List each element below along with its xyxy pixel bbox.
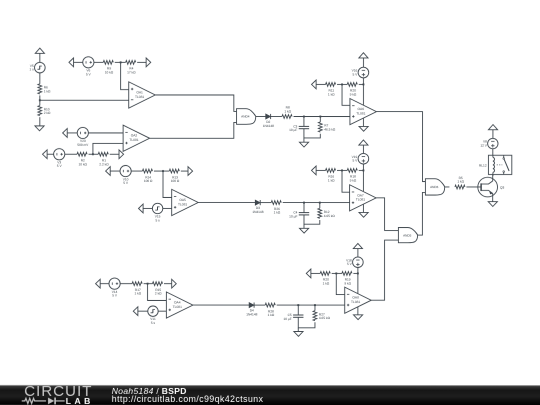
- terminal (up arrow): [359, 53, 368, 58]
- ground terminal (down arrow): [35, 126, 44, 131]
- junction: [303, 116, 305, 118]
- wire to OA5 inverting input: [163, 171, 172, 197]
- op-amp OA6: [350, 99, 377, 125]
- wire: [154, 170, 169, 172]
- ground at OA7 V-: [359, 212, 368, 217]
- svg-text:10 µF: 10 µF: [283, 317, 291, 321]
- svg-text:TL081: TL081: [178, 202, 187, 206]
- resistor R16: [326, 169, 336, 183]
- svg-text:46.5 kΩ: 46.5 kΩ: [324, 128, 336, 132]
- wire OA6 V- pin: [362, 118, 364, 126]
- diode D4: [246, 302, 257, 316]
- junction: [335, 272, 337, 274]
- terminal (left arrow): [96, 279, 101, 288]
- capacitor C3 top lead: [303, 117, 305, 127]
- svg-text:100 Ω: 100 Ω: [171, 179, 180, 183]
- voltage source V10: [120, 165, 131, 185]
- svg-text:9 kΩ: 9 kΩ: [350, 178, 357, 182]
- op-amp OA2: [123, 125, 150, 151]
- resistor R7: [318, 122, 335, 132]
- voltage source V23: [77, 127, 89, 147]
- wire to Q3 base: [466, 186, 477, 188]
- junction: [297, 304, 299, 306]
- ground at OA6 V-: [359, 126, 368, 131]
- wire: [89, 153, 99, 155]
- svg-text:1N4148: 1N4148: [252, 210, 263, 214]
- capacitor C3: [289, 124, 309, 132]
- wire: [110, 153, 119, 155]
- wire: [359, 83, 364, 85]
- svg-text:5 V: 5 V: [57, 164, 63, 168]
- voltage source V19: [352, 153, 369, 164]
- svg-text:1N4148: 1N4148: [263, 124, 274, 128]
- ground: [299, 228, 308, 233]
- svg-text:4.65 kΩ: 4.65 kΩ: [319, 316, 331, 320]
- svg-text:2 kΩ: 2 kΩ: [155, 292, 162, 296]
- terminal (left arrow): [69, 58, 74, 67]
- capacitor C4: [289, 211, 309, 219]
- wire V11 to OA4 non-inverting input: [158, 310, 166, 312]
- junction: [303, 202, 305, 204]
- svg-text:RL12: RL12: [479, 163, 487, 167]
- wire feedback to OA8 inverting input: [336, 273, 344, 294]
- junction: [341, 83, 343, 85]
- wire: [144, 283, 153, 285]
- junction: [357, 272, 359, 274]
- wire: [39, 73, 41, 84]
- resistor R27: [313, 311, 330, 321]
- svg-text:5 V: 5 V: [353, 73, 359, 77]
- resistor R18: [347, 169, 357, 183]
- op-amp OA5: [172, 189, 199, 215]
- wire OA8 V- pin: [357, 307, 359, 315]
- wire: [110, 170, 120, 172]
- svg-text:TL081: TL081: [135, 95, 144, 99]
- wire: [74, 61, 83, 63]
- AND gate AND4: [237, 109, 256, 125]
- voltage source V3: [54, 149, 65, 169]
- svg-text:1 kΩ: 1 kΩ: [44, 89, 51, 93]
- wire V19 to OA7 V+ pin: [362, 164, 364, 191]
- svg-text:TL081: TL081: [173, 305, 182, 309]
- wire: [65, 153, 77, 155]
- wire OA4 output: [193, 304, 249, 306]
- resistor R10: [38, 106, 51, 116]
- resistor R8: [282, 106, 292, 119]
- svg-text:10 µF: 10 µF: [289, 214, 297, 218]
- transistor Q3: [478, 174, 505, 201]
- resistor R26: [271, 201, 281, 215]
- junction: [162, 170, 164, 172]
- ground: [294, 332, 303, 337]
- svg-text:17 kΩ: 17 kΩ: [127, 70, 136, 74]
- terminal (left arrow): [312, 80, 317, 89]
- capacitor C4 top lead: [303, 203, 305, 213]
- wire V23 to OA2 inverting input: [88, 132, 123, 134]
- wire: [39, 117, 41, 126]
- wire OA7 output to AND5: [376, 198, 398, 231]
- voltage source V6: [83, 57, 94, 77]
- wire: [131, 170, 142, 172]
- svg-text:10 kΩ: 10 kΩ: [105, 70, 114, 74]
- wire AND6 output: [445, 186, 450, 188]
- wire AND4 output: [256, 115, 266, 117]
- resistor R15: [152, 282, 162, 296]
- square-wave source V5: [29, 62, 45, 73]
- diode D2: [263, 114, 274, 128]
- wire to OA8 non-inverting input: [277, 304, 345, 306]
- svg-text:2 kΩ: 2 kΩ: [44, 111, 51, 115]
- terminal (left arrow): [43, 150, 48, 159]
- diode D3: [252, 200, 263, 214]
- junction: [341, 169, 343, 171]
- wire: [181, 170, 188, 172]
- resistor R12: [318, 208, 335, 218]
- wire: [260, 202, 271, 204]
- wire V18 to OA8 V+ pin: [357, 268, 359, 294]
- wire: [337, 169, 347, 171]
- junction: [39, 99, 41, 101]
- svg-text:12 V: 12 V: [480, 144, 487, 148]
- resistor R14: [142, 169, 153, 183]
- terminal (up arrow): [488, 125, 497, 130]
- svg-text:2.2 kΩ: 2.2 kΩ: [99, 162, 109, 166]
- resistor R5: [455, 176, 465, 189]
- wire: [337, 83, 347, 85]
- wire to OA1 inverting input: [40, 99, 129, 101]
- ground at Q3 emitter: [488, 202, 497, 207]
- svg-text:5 s: 5 s: [151, 321, 156, 325]
- svg-text:1N4148: 1N4148: [246, 312, 257, 316]
- svg-text:AND5: AND5: [403, 233, 412, 237]
- wire OA7 V- pin: [362, 204, 364, 212]
- svg-text:1 kΩ: 1 kΩ: [457, 180, 464, 184]
- wire: [115, 61, 126, 63]
- capacitor C5 top lead: [297, 305, 299, 315]
- wire: [362, 145, 364, 153]
- svg-text:1 kΩ: 1 kΩ: [328, 92, 335, 96]
- terminal (right arrow): [172, 279, 177, 288]
- wire OA6 output to AND6: [376, 112, 425, 182]
- resistor R1: [98, 152, 109, 166]
- terminal (up arrow): [359, 140, 368, 145]
- wire ground drop: [297, 328, 299, 332]
- ground: [299, 142, 308, 147]
- wire R7 top lead: [319, 117, 321, 122]
- wire feedback to OA7 inverting input: [342, 170, 350, 192]
- svg-text:1 s: 1 s: [29, 68, 34, 72]
- terminal (left arrow): [306, 269, 311, 278]
- terminal (left arrow): [63, 129, 68, 138]
- svg-text:Q3: Q3: [500, 185, 504, 189]
- junction: [319, 202, 321, 204]
- resistor R19: [342, 272, 352, 286]
- junction: [319, 116, 321, 118]
- op-amp OA4: [166, 292, 193, 318]
- svg-text:100 Ω: 100 Ω: [144, 179, 153, 183]
- svg-text:1 kΩ: 1 kΩ: [323, 281, 330, 285]
- wire C4/R12 bottom: [304, 215, 320, 224]
- terminal (left arrow): [133, 307, 138, 316]
- svg-text:10 µF: 10 µF: [289, 128, 297, 132]
- voltage source V8: [480, 138, 498, 148]
- svg-text:1 kΩ: 1 kΩ: [328, 178, 335, 182]
- wire: [100, 283, 109, 285]
- wire AND5 output to AND6: [418, 192, 426, 235]
- wire: [143, 207, 152, 209]
- op-amp OA7: [350, 185, 377, 211]
- square-wave source V15: [152, 203, 162, 222]
- wire: [316, 83, 326, 85]
- wire feedback to OA6 inverting input: [342, 84, 350, 105]
- svg-text:OA8: OA8: [352, 296, 359, 300]
- svg-text:TL081: TL081: [129, 138, 138, 142]
- svg-text:5 s: 5 s: [155, 218, 160, 222]
- voltage source V16: [352, 67, 369, 78]
- wire OA5 output: [198, 202, 255, 204]
- wire C5/R27 bottom: [298, 317, 315, 328]
- terminal (right arrow): [146, 58, 151, 67]
- resistor R20: [347, 83, 357, 97]
- svg-text:5 V: 5 V: [347, 262, 353, 266]
- terminal (right arrow): [188, 167, 193, 176]
- wire: [94, 61, 104, 63]
- svg-text:1 kΩ: 1 kΩ: [274, 211, 281, 215]
- svg-text:OA1: OA1: [136, 90, 143, 94]
- svg-text:500 mV: 500 mV: [77, 143, 89, 147]
- svg-text:9 kΩ: 9 kΩ: [350, 92, 357, 96]
- wire: [137, 61, 146, 63]
- terminal (left arrow): [138, 204, 143, 213]
- AND gate AND6: [425, 179, 444, 195]
- wire OA1 output to AND4: [155, 95, 236, 111]
- svg-text:AND6: AND6: [430, 185, 439, 189]
- resistor R4: [126, 60, 137, 74]
- wire: [353, 272, 358, 274]
- wire: [271, 116, 282, 118]
- wire: [332, 272, 342, 274]
- wire: [120, 283, 132, 285]
- relay RL12: [479, 155, 512, 174]
- svg-text:TL081: TL081: [356, 198, 365, 202]
- junction: [314, 304, 316, 306]
- wire to OA6 non-inverting input: [294, 116, 350, 118]
- wire: [47, 153, 54, 155]
- wire: [254, 304, 265, 306]
- op-amp OA1: [129, 82, 156, 108]
- wire: [138, 310, 148, 312]
- wire to OA1 non-inverting input: [121, 62, 129, 89]
- footer bar: [0, 385, 540, 405]
- svg-text:4.65 kΩ: 4.65 kΩ: [324, 214, 336, 218]
- resistor R2: [77, 152, 88, 166]
- resistor R13: [169, 169, 180, 183]
- resistor R28: [265, 303, 275, 317]
- svg-text:AND4: AND4: [241, 115, 250, 119]
- terminal (left arrow): [312, 166, 317, 175]
- wire: [164, 283, 172, 285]
- svg-text:9 kΩ: 9 kΩ: [344, 281, 351, 285]
- capacitor C5: [283, 313, 303, 321]
- wire ground drop: [303, 224, 305, 228]
- junction: [120, 61, 122, 63]
- junction: [362, 169, 364, 171]
- svg-text:1 kΩ: 1 kΩ: [268, 313, 275, 317]
- wire to OA4 inverting input: [148, 284, 167, 301]
- wire C3/R7 bottom: [304, 129, 320, 138]
- voltage source V18: [346, 257, 363, 268]
- junction: [92, 153, 94, 155]
- wire: [316, 169, 326, 171]
- wire OA8 output to AND5: [371, 240, 398, 300]
- ground at OA8 V-: [353, 315, 362, 320]
- junction: [362, 83, 364, 85]
- terminal (right arrow): [119, 150, 124, 159]
- wire R12 top lead: [319, 203, 321, 209]
- wire: [362, 58, 364, 67]
- svg-text:TL081: TL081: [356, 111, 365, 115]
- square-wave source V11: [148, 306, 158, 325]
- wire OA2 output to AND4: [150, 122, 237, 138]
- wire ground drop: [303, 138, 305, 142]
- wire: [492, 130, 494, 139]
- svg-text:TL081: TL081: [351, 300, 360, 304]
- terminal (left arrow): [106, 167, 111, 176]
- wire: [359, 169, 364, 171]
- resistor R9: [103, 60, 114, 74]
- resistor R11: [326, 83, 336, 97]
- resistor R6: [38, 84, 51, 94]
- wire: [357, 249, 359, 257]
- resistor R17: [132, 282, 142, 296]
- voltage source V14: [109, 278, 120, 298]
- wire V15 to OA5 non-inverting input: [163, 207, 172, 209]
- wire V8 to relay: [492, 149, 494, 156]
- AND gate AND5: [398, 228, 417, 243]
- resistor R20: [320, 272, 330, 286]
- wire R27 top lead: [314, 305, 316, 311]
- svg-text:1 kΩ: 1 kΩ: [134, 292, 141, 296]
- svg-text:1 kΩ: 1 kΩ: [284, 109, 291, 113]
- wire relay to Q3 collector: [492, 174, 494, 176]
- wire: [39, 95, 41, 105]
- svg-text:10 kΩ: 10 kΩ: [79, 162, 88, 166]
- wire: [39, 53, 41, 62]
- wire: [67, 132, 77, 134]
- wire to OA7 non-inverting input: [283, 202, 350, 204]
- op-amp OA8: [345, 287, 372, 313]
- terminal (up arrow): [353, 243, 362, 248]
- wire V16 to OA6 V+ pin: [362, 78, 364, 105]
- svg-text:5 V: 5 V: [353, 159, 359, 163]
- wire: [311, 272, 321, 274]
- terminal node A (up arrow): [35, 48, 44, 53]
- wire to OA2 non-inverting input: [93, 143, 123, 154]
- junction: [147, 283, 149, 285]
- CircuitLab logo: [19, 386, 99, 405]
